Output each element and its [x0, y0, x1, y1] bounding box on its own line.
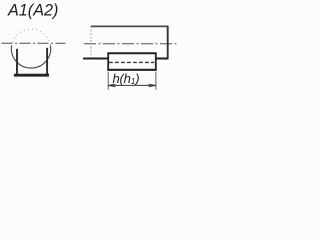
shaft circle upper arc (faint) [12, 29, 51, 47]
dimension arrow right [149, 84, 156, 87]
hub top edge [91, 25, 168, 27]
centerline (left figure) [2, 42, 66, 44]
channel left wall [16, 49, 18, 76]
key right edge [155, 53, 157, 71]
key bottom edge [107, 69, 156, 71]
channel bottom [14, 74, 49, 77]
hidden line (dashed) [109, 61, 154, 63]
hub left edge (faint) [90, 26, 92, 57]
svg-text:h(h1): h(h1) [113, 71, 140, 86]
channel right wall [46, 48, 48, 76]
key top edge [107, 52, 156, 54]
key left edge [107, 53, 109, 71]
shaft circle lower arc [11, 46, 50, 69]
hub right edge [167, 26, 169, 59]
shaft surface line left stub [83, 57, 108, 59]
centerline (right figure) [84, 43, 179, 45]
shaft surface line right stub [156, 57, 168, 59]
extension line right [155, 72, 157, 90]
extension line left [107, 72, 109, 90]
svg-text:A1(A2): A1(A2) [7, 1, 58, 19]
dimension arrow left [109, 84, 116, 87]
dimension line [109, 84, 155, 86]
